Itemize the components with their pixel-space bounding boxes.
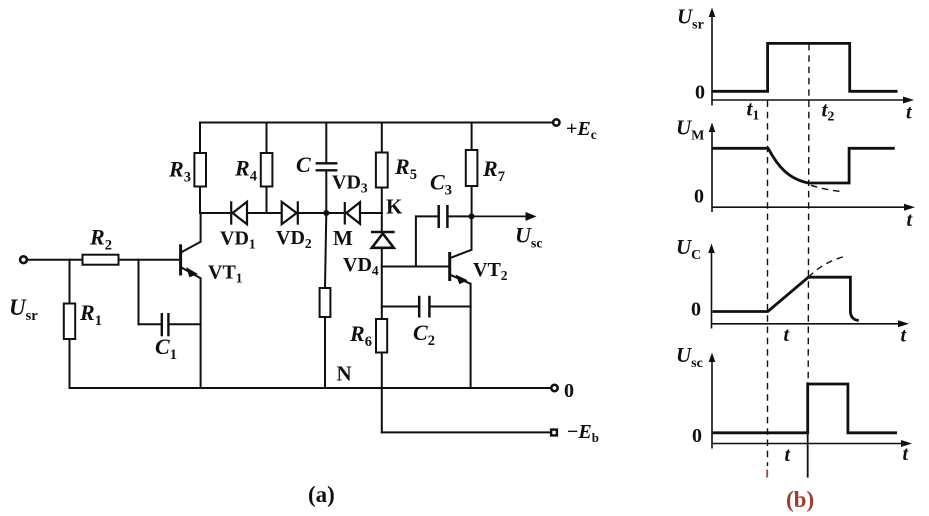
- svg-text:+Ec: +Ec: [566, 118, 597, 142]
- diode VD1: [231, 201, 247, 224]
- svg-text:t: t: [907, 209, 914, 231]
- capacitor C3 plates: [439, 205, 448, 228]
- capacitor C plates: [316, 163, 338, 170]
- svg-text:K: K: [386, 195, 403, 219]
- resistor between M and N: [320, 288, 331, 317]
- dashed vertical line t2: [807, 44, 810, 380]
- svg-text:VT2: VT2: [473, 259, 508, 283]
- red end mark of t1 dashed line: [766, 470, 768, 478]
- capacitor C1 plates: [162, 313, 169, 336]
- wire R5 top stub: [381, 123, 383, 153]
- dashed vertical line t1: [767, 101, 769, 467]
- wire C3 right lead to output node: [449, 215, 472, 217]
- svg-text:t: t: [903, 443, 910, 465]
- junction output node dot: [469, 213, 475, 219]
- wire VT2 base wire: [382, 266, 449, 268]
- wire VT2 base junction to R6: [381, 267, 383, 320]
- capacitor C2 plates: [419, 296, 429, 318]
- resistor R6: [376, 319, 387, 353]
- wire node M resistor lower stub to node N: [324, 317, 326, 388]
- plot3 UC dashed continuation: [808, 256, 845, 277]
- wire VT1 collector vertical: [200, 213, 202, 242]
- svg-text:Usr: Usr: [677, 5, 704, 33]
- output arrow Usc: [472, 213, 536, 220]
- svg-text:UM: UM: [676, 116, 704, 144]
- wire node M resistor upper stub: [325, 213, 326, 288]
- junction node M dot: [323, 210, 329, 216]
- svg-text:t: t: [784, 324, 791, 346]
- plot3 UC x-axis: [712, 323, 902, 325]
- transistor VT2: [450, 250, 472, 284]
- resistor R5: [376, 153, 388, 188]
- plot4 solid vertical t2 line extension: [807, 382, 809, 477]
- svg-text:VD2: VD2: [276, 227, 312, 251]
- wire R3 bottom stub to diode row: [199, 187, 201, 214]
- zener diode VD4: [371, 232, 395, 248]
- wire C2 left lead: [382, 306, 418, 308]
- svg-text:N: N: [337, 362, 352, 386]
- svg-text:VD1: VD1: [220, 228, 256, 252]
- wire C3 left branch vertical: [415, 216, 417, 266]
- svg-text:C2: C2: [413, 320, 435, 349]
- terminal +Ec: [553, 119, 559, 125]
- input terminal: [20, 256, 27, 263]
- wire C1 left lead: [139, 323, 161, 325]
- wire diode row VT1 collector to VD1: [200, 212, 229, 214]
- svg-text:t2: t2: [822, 98, 835, 125]
- wire VT1 emitter vertical to 0 rail: [200, 278, 202, 388]
- wire 0 rail: [70, 387, 551, 389]
- plot2 UM dashed asymptote: [811, 185, 842, 191]
- svg-text:t: t: [906, 102, 913, 124]
- svg-text:C: C: [296, 152, 311, 177]
- plot4 Usc x-axis: [712, 443, 904, 445]
- svg-text:M: M: [333, 226, 353, 250]
- svg-text:0: 0: [691, 299, 701, 321]
- svg-text:0: 0: [564, 380, 574, 402]
- svg-text:R3: R3: [168, 157, 191, 186]
- plot4 Usc waveform: [713, 384, 898, 433]
- svg-text:R1: R1: [79, 300, 102, 329]
- svg-text:VT1: VT1: [208, 262, 243, 286]
- svg-text:t: t: [785, 444, 792, 466]
- svg-text:(b): (b): [786, 487, 814, 512]
- wire top +Ec rail: [200, 122, 553, 124]
- wire C1 branch vertical from base: [138, 260, 140, 325]
- resistor R4: [261, 153, 273, 187]
- wire VT2 emitter vertical to 0 rail: [470, 284, 472, 388]
- terminal -Eb: [551, 430, 557, 436]
- svg-text:VD3: VD3: [332, 172, 368, 196]
- plot1 Usr y-axis: [711, 11, 713, 106]
- plot2 UM x-axis: [712, 206, 907, 208]
- wire diode row VD3 to node K: [360, 212, 382, 214]
- terminal 0: [551, 385, 557, 391]
- svg-text:UC: UC: [676, 235, 701, 263]
- resistor R1: [64, 304, 75, 340]
- wire C2 right lead to emitter line: [431, 306, 471, 308]
- wire R1 top stub: [69, 260, 71, 304]
- svg-text:(a): (a): [308, 482, 335, 507]
- wire diode row VD2 to node M: [299, 212, 327, 214]
- svg-text:−Eb: −Eb: [567, 421, 599, 445]
- plot3 UC y-axis: [711, 247, 713, 329]
- plot4 Usc y-axis: [711, 356, 713, 449]
- svg-text:t: t: [901, 325, 908, 347]
- svg-text:R2: R2: [89, 225, 112, 254]
- plot2 UM waveform: [713, 148, 895, 183]
- wire diode row VD1 to VD2: [247, 212, 282, 214]
- svg-text:R6: R6: [349, 321, 372, 350]
- resistor R7: [466, 150, 478, 186]
- plot2 UM y-axis: [711, 126, 713, 212]
- svg-text:C1: C1: [155, 334, 177, 363]
- wire R7 bottom to output node: [471, 186, 473, 216]
- plot1 Usr x-axis: [712, 99, 906, 101]
- wire R4 top stub: [266, 123, 268, 154]
- svg-text:R4: R4: [234, 156, 257, 185]
- wire R1 bottom to 0 rail: [69, 339, 71, 388]
- svg-text:C3: C3: [430, 170, 452, 199]
- svg-text:0: 0: [695, 82, 705, 104]
- wire C bottom stub to node M: [325, 172, 327, 214]
- plot1 Usr waveform: [713, 43, 898, 91]
- diode VD2: [282, 201, 298, 224]
- wire input to VT1 base: [28, 259, 180, 261]
- wire VD4 to VT2 base junction: [381, 248, 383, 267]
- svg-text:R7: R7: [482, 156, 505, 185]
- wire diode row node M to VD3: [326, 212, 344, 214]
- svg-text:R5: R5: [394, 154, 417, 183]
- wire -Eb rail: [382, 431, 550, 433]
- wire R7 top stub: [471, 123, 473, 151]
- wire R5 bottom to node K and VD4: [381, 188, 383, 231]
- svg-text:Usc: Usc: [515, 223, 543, 252]
- svg-text:Usr: Usr: [9, 295, 38, 324]
- diode VD3: [345, 202, 360, 225]
- wire C1 right lead to emitter line: [170, 323, 201, 325]
- transistor VT1: [181, 242, 201, 278]
- svg-text:0: 0: [692, 425, 702, 447]
- wire C top stub: [325, 123, 327, 163]
- wire R6 bottom to -Eb rail: [381, 353, 383, 433]
- plot3 UC waveform: [713, 277, 859, 320]
- resistor R3: [194, 153, 206, 187]
- wire C3 left lead: [416, 215, 437, 217]
- resistor R2: [83, 255, 119, 265]
- svg-text:Usc: Usc: [676, 343, 703, 371]
- wire VT2 collector vertical: [471, 216, 473, 249]
- svg-text:0: 0: [694, 186, 704, 208]
- wire R4 bottom stub to diode row: [266, 187, 268, 214]
- wire R3 top stub: [199, 123, 201, 154]
- svg-text:VD4: VD4: [343, 254, 379, 278]
